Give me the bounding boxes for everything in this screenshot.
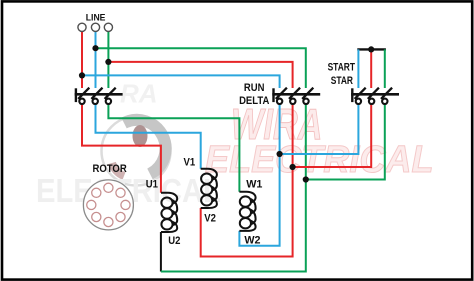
main contactor K1 [75, 88, 123, 104]
wire red branch to star contactor pole2 bottom [293, 104, 372, 167]
wire red from main contactor pole1 to coil U1 [82, 104, 161, 193]
svg-text:DELTA: DELTA [239, 96, 270, 108]
wire L2 blue vertical from terminal to main contactor [95, 32, 97, 88]
wire blue star bar to star contactor pole1 top [357, 49, 359, 88]
wire green star bar to star contactor pole3 top [384, 49, 386, 88]
LINE terminal L2 [91, 23, 99, 31]
wire red branch from L3 to delta contactor pole2 top [108, 62, 292, 88]
LINE terminal L1 [78, 23, 86, 31]
svg-text:RUN: RUN [244, 83, 265, 95]
svg-text:U2: U2 [168, 235, 181, 247]
rotor (slip ring rotor) [83, 180, 133, 230]
wire blue branch from L1 to delta contactor pole1 top [82, 75, 280, 88]
svg-text:U1: U1 [146, 179, 159, 191]
wire red from coil V2 to delta contactor pole2 bottom [201, 104, 293, 256]
svg-text:V1: V1 [184, 157, 196, 169]
wire blue from main contactor pole2 to coil V1 [96, 104, 201, 169]
wire L3 green vertical from terminal to main contactor [107, 32, 109, 88]
svg-text:RA: RA [120, 79, 158, 109]
LINE terminal L3 [104, 23, 112, 31]
svg-text:ROTOR: ROTOR [92, 164, 127, 176]
wire green from U2 to delta contactor pole3 bottom [161, 104, 306, 271]
wire green from main contactor pole3 to coil W1 [108, 104, 239, 191]
wire blue branch to star contactor pole1 bottom [280, 104, 359, 154]
wire red star bar to star contactor pole2 top [370, 49, 372, 88]
wire black from coil U2 down [160, 232, 162, 272]
coil winding U1-U2 [161, 193, 177, 232]
wire L1 red vertical from terminal to main contactor [81, 32, 83, 88]
coil winding V1-V2 [201, 169, 217, 208]
svg-text:START: START [328, 61, 355, 73]
star point short bar [357, 48, 386, 50]
junction dot on L3 at red branch [105, 59, 111, 65]
coil winding W1-W2 [239, 192, 255, 231]
run delta contactor K2 [272, 88, 320, 104]
junction dot on L2 at green branch [92, 45, 98, 51]
wire green branch from L2 to delta contactor pole3 top [96, 48, 306, 88]
junction dot on L1 at blue branch [79, 72, 85, 78]
wire green branch to star contactor pole3 bottom [306, 104, 385, 179]
svg-text:W1: W1 [246, 178, 262, 190]
svg-text:V2: V2 [204, 213, 216, 225]
junction dot star point [368, 46, 374, 52]
wire blue from coil W2 to delta contactor pole1 bottom [239, 104, 279, 246]
junction dot red V2 node [290, 164, 296, 170]
svg-text:LINE: LINE [86, 12, 106, 22]
star contactor K3 [351, 88, 399, 104]
junction dot green U2 node [303, 176, 309, 182]
junction dot blue W2 node [277, 151, 283, 157]
svg-text:STAR: STAR [331, 75, 353, 87]
svg-text:W2: W2 [244, 234, 260, 246]
